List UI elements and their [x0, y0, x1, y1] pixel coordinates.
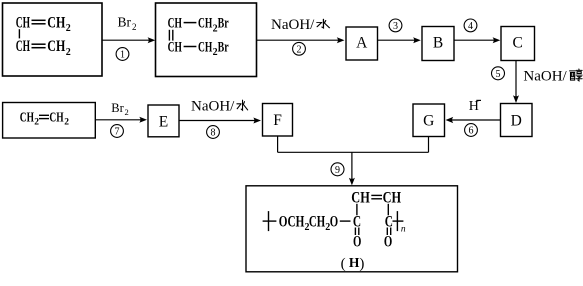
double bond line1: [32, 19, 46, 21]
svg-text:B: B: [433, 35, 443, 52]
svg-text:CH: CH: [47, 38, 65, 55]
circled 6: [465, 124, 478, 137]
arrow 2 head: [337, 37, 345, 43]
svg-text:CH: CH: [351, 189, 370, 206]
svg-text:2: 2: [34, 118, 39, 128]
box A: [346, 27, 378, 60]
svg-text:n: n: [401, 224, 406, 234]
arrow 3 wire: [378, 39, 418, 41]
svg-text:H: H: [349, 255, 360, 270]
circled 2: [293, 42, 306, 55]
arrow 5 wire C to D: [515, 61, 517, 100]
svg-text:NaOH/: NaOH/: [271, 17, 315, 33]
label Br2 above arrow7: [111, 101, 128, 117]
svg-text:CH: CH: [168, 39, 183, 55]
svg-text:4: 4: [468, 21, 473, 32]
svg-text:CH: CH: [383, 189, 402, 206]
svg-text:CH: CH: [198, 15, 213, 31]
vertical single bond between CH groups: [18, 29, 20, 38]
polymer bond C to right bracket: [393, 220, 404, 222]
circled 8: [207, 126, 220, 139]
svg-text:Br: Br: [118, 15, 132, 30]
wire horizontal joining F and G: [278, 151, 429, 153]
box butadiene reactant: [3, 3, 103, 76]
polymer double bond C=O right: [386, 228, 388, 236]
wire from G down: [428, 137, 430, 153]
polymer vertical bond left CH to C: [356, 204, 358, 216]
svg-text:H: H: [469, 99, 479, 114]
polymer CH=CH top text: [351, 189, 401, 206]
svg-text:A: A: [356, 35, 368, 52]
arrow 9 head: [349, 178, 355, 186]
circled 4: [464, 19, 477, 32]
circled 5: [492, 67, 505, 80]
arrow 2 wire: [257, 39, 341, 41]
arrow 1 head: [148, 37, 156, 43]
polymer main chain text OCH2CH2O: [279, 214, 338, 234]
svg-text:CH: CH: [309, 214, 325, 231]
svg-text:7: 7: [115, 127, 120, 138]
svg-text:CH: CH: [49, 110, 64, 125]
svg-text:C: C: [385, 214, 393, 231]
svg-text:CH: CH: [16, 38, 31, 55]
circled 1: [116, 48, 129, 61]
circled 9: [331, 163, 344, 176]
box E: [148, 105, 179, 137]
svg-text:Br: Br: [218, 15, 229, 31]
arrow 3 head: [413, 37, 421, 43]
arrow 6 head: [446, 117, 454, 123]
svg-text:9: 9: [335, 165, 340, 176]
double bond of ethylene: [39, 114, 49, 116]
arrow 6 wire D to G: [449, 119, 501, 121]
box F: [263, 104, 293, 137]
circled 7: [111, 125, 124, 138]
arrow 8 wire: [179, 120, 258, 122]
svg-text:2: 2: [66, 47, 71, 58]
polymer double bond C=O left: [354, 228, 356, 236]
arrow 4 head: [493, 37, 501, 43]
svg-text:OCH: OCH: [279, 214, 305, 231]
label Br2 above arrow1: [118, 15, 137, 33]
arrow 8 head: [253, 118, 261, 124]
svg-text:): ): [359, 256, 364, 272]
svg-text:6: 6: [469, 126, 474, 137]
formula CH=CH2 line1: [16, 14, 71, 34]
hanzi water (shui) for arrow8: [237, 100, 248, 110]
superscript minus of H: [476, 99, 481, 101]
svg-text:O: O: [384, 233, 392, 250]
svg-text:2: 2: [125, 107, 129, 117]
svg-text:O: O: [353, 233, 361, 250]
arrow 9 wire down to product box: [351, 152, 353, 182]
svg-text:G: G: [423, 113, 434, 130]
polymer left bracket: [268, 211, 270, 231]
formula CH=CH2 line2: [16, 38, 71, 58]
arrow 1 wire: [102, 39, 152, 41]
box G: [413, 104, 445, 137]
svg-text:Br: Br: [218, 39, 229, 55]
svg-text:CH: CH: [198, 39, 213, 55]
svg-text:NaOH/: NaOH/: [191, 99, 235, 115]
arrow 5 head: [513, 95, 519, 103]
formula CH2=CH2: [20, 110, 70, 128]
box B: [422, 27, 454, 61]
polymer right bracket: [396, 211, 398, 231]
arrow 7 wire: [95, 119, 143, 121]
svg-text:C: C: [513, 35, 523, 52]
svg-text:F: F: [273, 112, 282, 129]
single bond line2: [184, 46, 197, 48]
hanzi water (shui) for arrow2: [317, 19, 330, 28]
arrow 4 wire: [454, 39, 497, 41]
single bond line1: [184, 22, 197, 24]
wire from F down: [277, 136, 279, 152]
svg-text:NaOH/: NaOH/: [523, 68, 567, 84]
circled 3: [389, 19, 402, 32]
hanzi alcohol (chun) for arrow5: [570, 69, 583, 81]
svg-text:8: 8: [211, 128, 216, 139]
svg-text:D: D: [511, 113, 522, 130]
svg-text:(: (: [341, 256, 346, 272]
box polymer product H: [246, 186, 458, 272]
polymer CH=CH double bond: [371, 194, 382, 196]
svg-text:2: 2: [132, 22, 137, 32]
formula CH-CH2Br line1: [168, 15, 229, 34]
double bond line2: [32, 43, 46, 45]
polymer vertical bond right CH to C: [387, 204, 389, 216]
svg-text:2: 2: [64, 118, 69, 128]
label (H): [341, 255, 365, 272]
polymer bond O to C: [340, 220, 351, 222]
box C: [501, 27, 535, 61]
svg-text:1: 1: [120, 50, 125, 61]
svg-text:CH: CH: [168, 15, 183, 31]
svg-text:Br: Br: [111, 101, 124, 115]
svg-text:2: 2: [66, 23, 71, 34]
arrow 7 head: [139, 117, 147, 123]
vertical double bond between CH groups: [168, 30, 170, 41]
svg-text:3: 3: [393, 21, 398, 32]
svg-text:5: 5: [496, 69, 501, 80]
svg-text:E: E: [159, 114, 168, 131]
formula CH-CH2Br line2: [168, 39, 229, 58]
svg-text:CH: CH: [47, 14, 65, 31]
box dibromide product: [156, 3, 257, 77]
svg-text:2: 2: [297, 44, 302, 55]
box ethylene reactant: [3, 103, 96, 139]
svg-text:CH: CH: [20, 110, 35, 125]
svg-text:CH: CH: [16, 14, 31, 31]
svg-text:C: C: [353, 214, 361, 231]
svg-text:O: O: [330, 214, 338, 231]
box D: [501, 104, 533, 137]
